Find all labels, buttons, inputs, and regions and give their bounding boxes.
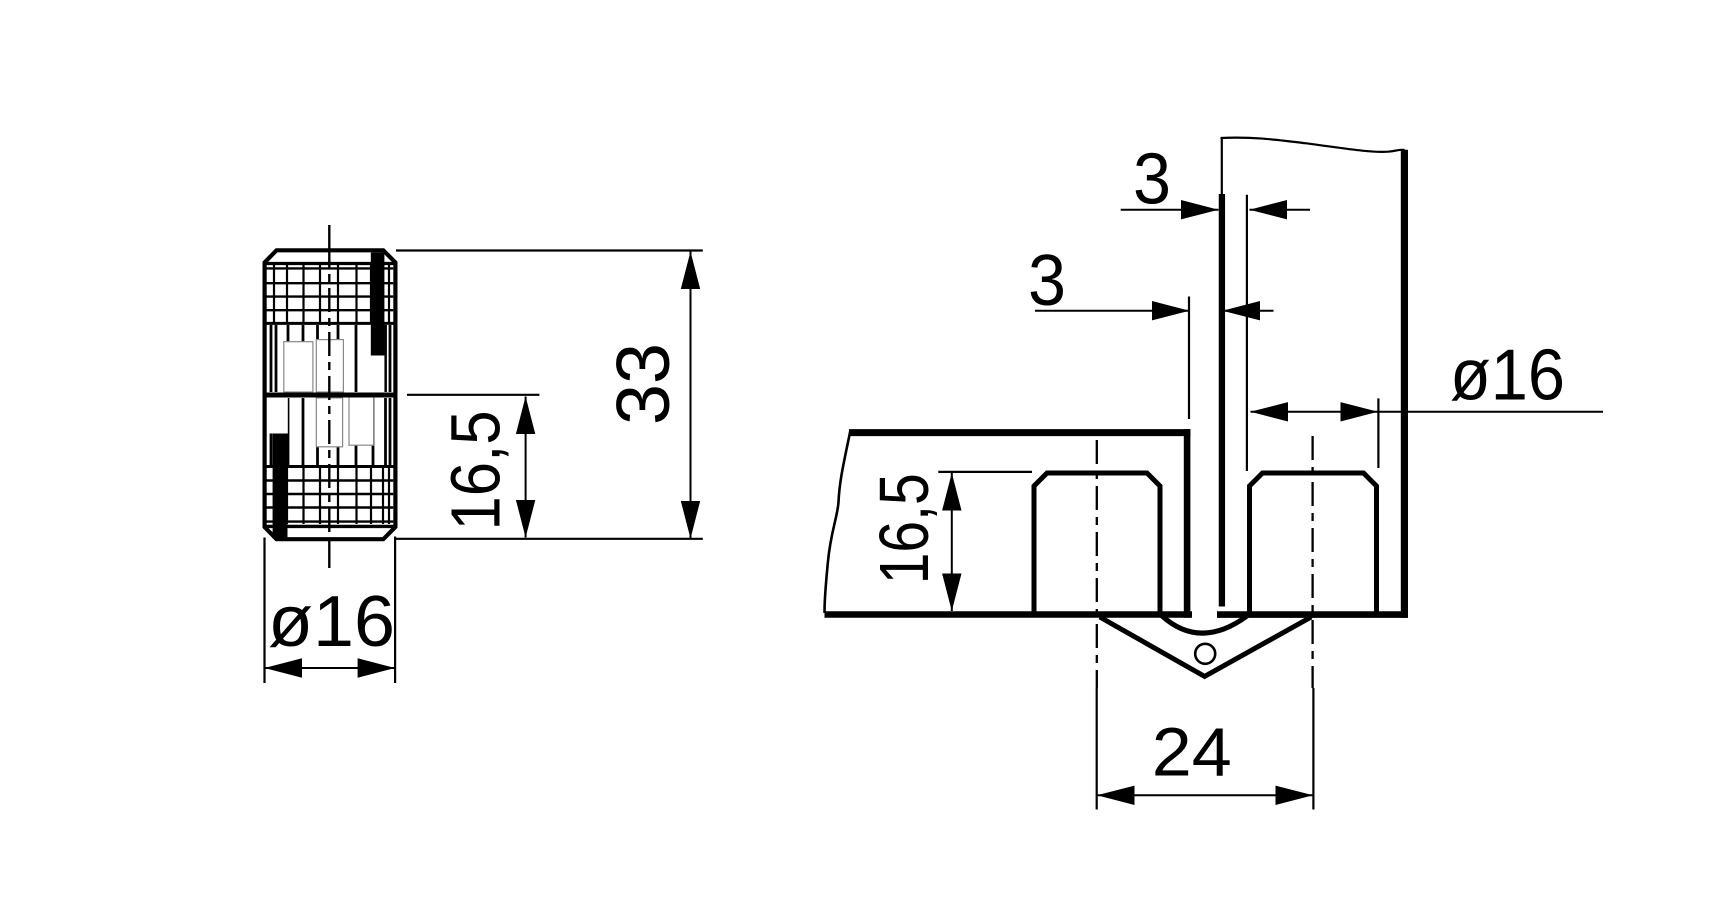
knurl grid bottom: top boundary row [265, 465, 396, 468]
middle parting line [263, 393, 398, 398]
highlight rectangle R1 [284, 342, 313, 392]
svg-text:ø16: ø16 [268, 582, 395, 662]
dimension 3 upper: dimension lines [1121, 209, 1310, 211]
pivot hole [1195, 644, 1215, 664]
hinge barrel in door panel [1250, 473, 1377, 615]
highlight rectangle R2 [316, 340, 343, 392]
hinge V-plate [1100, 617, 1311, 676]
knurled sleeve (left view) [263, 225, 398, 568]
top face line [266, 262, 395, 265]
door panel bottom edge [1217, 611, 1408, 618]
dimension 3 lower: arrowheads [1152, 301, 1260, 320]
dimension 16,5 left: dimension line [525, 397, 527, 538]
centerline of right barrel [1311, 436, 1313, 688]
door panel left edge [1219, 194, 1225, 607]
door panel broken top edge [1221, 138, 1405, 152]
dimension 24: extension lines [1097, 688, 1314, 810]
door panel left edge thin upper part [1221, 138, 1223, 196]
knurl grid top: horizontal lines [267, 268, 394, 310]
dimension o16 right: extension line [1377, 398, 1379, 468]
dimension 24: dimension line [1097, 794, 1313, 796]
bottom panel top edge [849, 429, 1190, 436]
sleeve outline [265, 250, 396, 539]
dimension 33: dimension line [690, 252, 692, 539]
bottom face line [265, 525, 395, 528]
bottom panel bottom edge [825, 611, 1193, 618]
knuckle arc [1162, 616, 1248, 634]
highlight rectangle R4 [349, 396, 374, 445]
middle band vertical lines upper half [271, 325, 390, 392]
dimension 16,5 left: extension lines [395, 395, 703, 539]
dimension o16 left: arrowheads [265, 658, 396, 677]
svg-text:ø16: ø16 [1450, 336, 1565, 416]
dimension 16,5 left: arrowheads [516, 397, 535, 538]
dimension 3 lower: dimension lines [1035, 310, 1274, 312]
dimension o16 left: dimension line [265, 667, 396, 669]
sleeve centerline [328, 225, 330, 568]
knurl grid bottom: vertical lines [274, 467, 389, 525]
svg-text:16,5: 16,5 [865, 473, 943, 584]
right view: installed hinge section [825, 138, 1408, 688]
centerline of left barrel [1096, 440, 1098, 688]
dimension 3 upper: arrowheads [1181, 200, 1287, 219]
dimension 33: arrowheads [681, 252, 700, 539]
svg-text:33: 33 [601, 343, 685, 425]
knurl grid bottom: horizontal lines [267, 481, 394, 522]
white column above bottom-left shadow [268, 398, 288, 434]
shadow bar top-right [371, 253, 385, 356]
door panel right edge [1401, 150, 1408, 618]
knurl grid top: vertical lines [274, 265, 389, 323]
svg-text:3: 3 [1133, 140, 1171, 220]
dimension o16 right: arrowheads [1251, 402, 1379, 421]
white column under top-right shadow [371, 356, 385, 393]
dimension 3 lower: extension line [1188, 297, 1190, 420]
dimension o16 left: extension lines [265, 537, 396, 684]
highlight rectangle R3 [316, 398, 342, 447]
bottom panel right edge [1184, 429, 1191, 618]
hinge barrel in bottom panel [1034, 473, 1160, 615]
svg-text:3: 3 [1028, 241, 1066, 321]
svg-text:24: 24 [1152, 714, 1232, 791]
middle band vertical lines lower half [271, 398, 390, 467]
bottom panel broken left edge [825, 430, 851, 613]
dimension 24: arrowheads [1097, 786, 1313, 805]
dimension 3 upper: extension line [1246, 195, 1248, 471]
svg-text:16,5: 16,5 [437, 411, 515, 531]
dimension 16,5 right: arrowheads [942, 473, 961, 611]
dimension 16,5 right: dimension line [951, 473, 953, 611]
dimension 16,5 right: extension line [938, 471, 1032, 473]
dimension 33: extension line top [396, 249, 703, 251]
dimension o16 right: dimension line [1251, 411, 1604, 413]
shadow bar bottom-left [273, 434, 288, 539]
knurl grid top: bottom boundary row [265, 322, 396, 325]
